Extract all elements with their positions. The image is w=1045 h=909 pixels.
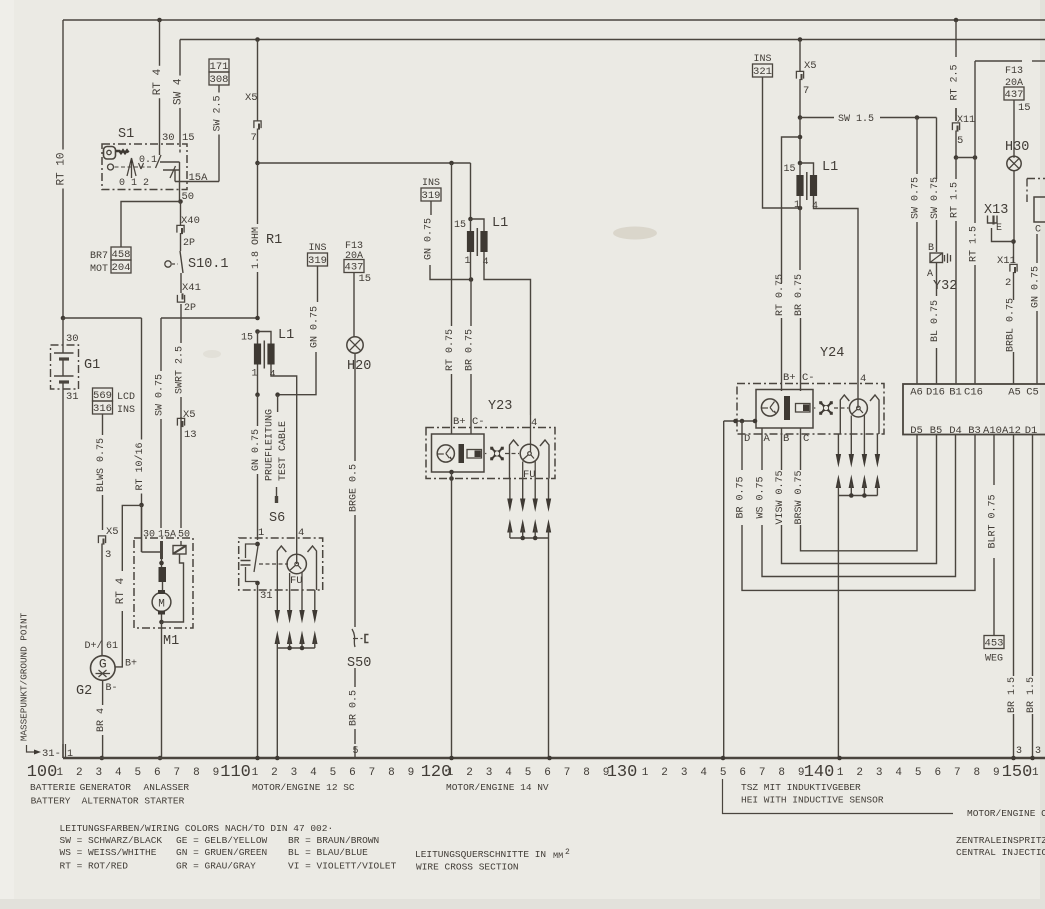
svg-text:X5: X5	[106, 526, 119, 538]
svg-text:2: 2	[76, 767, 83, 779]
svg-text:B5: B5	[930, 425, 943, 437]
svg-text:1: 1	[837, 767, 844, 779]
svg-text:C-: C-	[472, 416, 485, 428]
svg-text:D4: D4	[949, 425, 962, 437]
svg-text:1: 1	[67, 749, 73, 760]
legend wiring colors	[60, 823, 397, 872]
wire SWRT 2.5 from S10.1 to starter terminal 50	[180, 318, 182, 343]
svg-text:BATTERIE: BATTERIE	[30, 782, 76, 793]
svg-text:SW 4: SW 4	[173, 78, 185, 105]
svg-text:C-: C-	[802, 372, 815, 384]
svg-text:MOT: MOT	[90, 264, 108, 275]
svg-text:110: 110	[220, 763, 251, 782]
wire SW 0.75 to starter 15A	[160, 318, 162, 371]
svg-text:B3: B3	[968, 425, 981, 437]
svg-text:BR7: BR7	[90, 251, 108, 262]
svg-text:1: 1	[251, 369, 257, 380]
svg-text:FU: FU	[523, 469, 536, 481]
svg-text:2: 2	[661, 767, 668, 779]
switch S50	[347, 629, 371, 671]
svg-text:319: 319	[422, 190, 441, 202]
connector X5 pin 7 column	[245, 40, 261, 164]
wire distribution y163	[258, 162, 471, 164]
svg-text:WS 0.75: WS 0.75	[756, 476, 767, 518]
svg-text:1: 1	[1032, 767, 1039, 779]
svg-text:WIRE CROSS SECTION: WIRE CROSS SECTION	[416, 862, 519, 873]
wire SW 4 to ignition switch terminal 15	[179, 40, 181, 76]
svg-text:2: 2	[271, 767, 278, 779]
svg-text:15A: 15A	[189, 172, 209, 184]
svg-text:2P: 2P	[184, 303, 196, 314]
svg-text:B-: B-	[106, 683, 118, 694]
battery G1	[51, 318, 101, 758]
wire coil 4 to Y24 pin 4	[814, 196, 859, 408]
svg-text:BR 0.5: BR 0.5	[349, 690, 360, 726]
svg-text:C5: C5	[1026, 387, 1039, 399]
svg-text:GN 0.75: GN 0.75	[424, 218, 435, 260]
svg-text:B: B	[783, 433, 789, 445]
svg-text:ANLASSER: ANLASSER	[144, 782, 190, 793]
wire from H30 to ECU A5 with X13 stub and X11 pin 2	[984, 171, 1017, 384]
svg-text:15: 15	[241, 333, 253, 344]
svg-text:RT 10/16: RT 10/16	[134, 442, 146, 490]
test cable stub PRUEFLEITUNG	[265, 392, 290, 503]
svg-text:20A: 20A	[345, 251, 363, 262]
connector X5 pin 7 section 140	[796, 40, 816, 118]
svg-text:WS = WEISS/WHITHE: WS = WEISS/WHITHE	[60, 847, 157, 858]
svg-text:A5: A5	[1008, 387, 1021, 399]
svg-text:VI = VIOLETT/VIOLET: VI = VIOLETT/VIOLET	[288, 861, 397, 872]
fuse box labels 171 308	[209, 59, 229, 72]
svg-text:5: 5	[720, 767, 727, 779]
svg-text:4: 4	[895, 767, 902, 779]
svg-text:13: 13	[184, 429, 197, 441]
svg-text:D: D	[744, 433, 750, 445]
svg-text:SW 0.75: SW 0.75	[155, 374, 166, 416]
svg-text:SW 2.5: SW 2.5	[213, 95, 224, 131]
svg-text:ZENTRALEINSPRITZUN: ZENTRALEINSPRITZUN	[956, 835, 1045, 846]
svg-text:15: 15	[359, 273, 372, 285]
svg-text:FU: FU	[290, 575, 303, 587]
svg-text:308: 308	[210, 74, 229, 86]
wire RT 10 battery feed	[62, 20, 64, 150]
wire coil 4 to distributor S6 pin 4	[271, 365, 297, 565]
svg-text:3: 3	[876, 767, 883, 779]
svg-text:L1: L1	[278, 328, 294, 343]
svg-text:INS: INS	[753, 54, 771, 65]
ground bus 31	[63, 757, 1045, 759]
svg-text:319: 319	[308, 255, 327, 267]
svg-text:4: 4	[298, 527, 304, 539]
svg-text:C16: C16	[964, 387, 983, 399]
wire RT 0.75 to Y23 B+	[451, 163, 453, 326]
svg-text:S1: S1	[118, 127, 134, 142]
wire GN 0.75 INS to coil L1	[424, 201, 472, 280]
svg-text:30: 30	[143, 530, 155, 541]
svg-text:5: 5	[135, 767, 142, 779]
svg-text:HEI WITH INDUCTIVE SENSOR: HEI WITH INDUCTIVE SENSOR	[741, 795, 884, 806]
wire Y24 B VISW 0.75 to ECU B5	[775, 429, 937, 564]
svg-text:31-: 31-	[42, 748, 61, 760]
svg-text:R1: R1	[266, 233, 282, 248]
svg-text:Y23: Y23	[488, 399, 512, 414]
svg-text:RT 4: RT 4	[152, 68, 164, 95]
svg-text:453: 453	[985, 638, 1004, 650]
svg-text:100: 100	[27, 763, 58, 782]
svg-text:1: 1	[252, 767, 259, 779]
svg-text:Y24: Y24	[820, 346, 844, 361]
svg-text:3: 3	[1016, 746, 1022, 757]
wire Y24 D ground via y421	[724, 419, 758, 758]
wire ECU D1 BR 1.5 to ground	[1026, 435, 1041, 759]
svg-text:BR 0.75: BR 0.75	[465, 329, 476, 371]
svg-text:31: 31	[260, 590, 273, 602]
svg-text:MOTOR/ENGINE 14 NV: MOTOR/ENGINE 14 NV	[446, 782, 549, 793]
svg-text:X11: X11	[997, 255, 1016, 267]
svg-text:3: 3	[105, 549, 111, 561]
svg-text:BR = BRAUN/BROWN: BR = BRAUN/BROWN	[288, 835, 379, 846]
wire SW 0.75 to ECU A6	[916, 118, 918, 175]
node junction X5-7 / R1	[255, 161, 260, 166]
svg-text:GN = GRUEN/GREEN: GN = GRUEN/GREEN	[176, 847, 267, 858]
resistor R1 1.8 OHM ballast	[251, 163, 282, 318]
svg-text:SW 0.75: SW 0.75	[911, 177, 922, 219]
svg-text:7: 7	[251, 132, 257, 144]
svg-text:2: 2	[1005, 277, 1011, 289]
svg-text:M: M	[158, 599, 165, 611]
svg-text:BR 4: BR 4	[96, 708, 107, 732]
svg-text:9: 9	[993, 767, 1000, 779]
svg-text:50: 50	[178, 530, 190, 541]
svg-text:6: 6	[154, 767, 161, 779]
wire coil 4 to Y23 pin 4	[484, 252, 531, 415]
svg-text:140: 140	[804, 763, 835, 782]
svg-text:GN 0.75: GN 0.75	[310, 306, 321, 348]
wire top supply bus 30	[63, 19, 1045, 21]
section label battery generator starter	[30, 782, 189, 807]
svg-text:15: 15	[454, 220, 466, 231]
section label TSZ inductive sensor	[723, 779, 1045, 819]
ignition coil L1 section 140	[783, 160, 838, 212]
svg-text:RT = ROT/RED: RT = ROT/RED	[60, 861, 129, 872]
svg-text:437: 437	[345, 262, 364, 274]
wire SW 2.5 from fuse 171/308 to S1 terminal 15A	[218, 85, 220, 93]
svg-text:SWRT 2.5: SWRT 2.5	[175, 346, 186, 394]
svg-text:D+/: D+/	[85, 640, 103, 652]
svg-text:30: 30	[162, 132, 175, 144]
svg-text:LCD: LCD	[117, 392, 135, 403]
svg-text:3: 3	[96, 767, 103, 779]
svg-text:8: 8	[388, 767, 395, 779]
svg-text:3: 3	[291, 767, 298, 779]
svg-text:RT 1.5: RT 1.5	[969, 226, 980, 262]
svg-text:9: 9	[408, 767, 415, 779]
wire RT 1.5 to ECU C16	[956, 61, 1045, 384]
svg-text:D1: D1	[1025, 425, 1038, 437]
svg-text:BR 1.5: BR 1.5	[1026, 677, 1037, 713]
svg-text:0 1 2: 0 1 2	[119, 178, 149, 189]
svg-text:5: 5	[330, 767, 337, 779]
svg-text:VISW 0.75: VISW 0.75	[775, 470, 786, 524]
wire Y23 ground	[449, 470, 454, 758]
svg-text:L1: L1	[492, 216, 508, 231]
svg-text:S10.1: S10.1	[188, 257, 229, 272]
svg-text:15: 15	[182, 132, 195, 144]
svg-text:BL 0.75: BL 0.75	[930, 300, 941, 342]
wire BR 0.75 coil1/INS to Y24 C-	[794, 196, 805, 391]
svg-text:0.1: 0.1	[139, 155, 157, 166]
svg-text:RT 0.75: RT 0.75	[445, 329, 456, 371]
svg-text:7: 7	[174, 767, 181, 779]
svg-text:GR = GRAU/GRAY: GR = GRAU/GRAY	[176, 861, 256, 872]
svg-text:2: 2	[466, 767, 473, 779]
bus start marker 1	[65, 744, 67, 758]
wire BRGE 0.5 lamp to S50	[354, 353, 356, 461]
svg-text:2: 2	[856, 767, 863, 779]
lamp H30	[1005, 140, 1029, 171]
wire RT 4 to ignition switch terminal 30	[159, 20, 161, 66]
svg-text:B+: B+	[783, 372, 796, 384]
svg-text:4: 4	[700, 767, 707, 779]
svg-text:C: C	[803, 433, 809, 445]
svg-text:GN 0.75: GN 0.75	[251, 429, 262, 471]
svg-text:9: 9	[603, 767, 610, 779]
svg-text:15: 15	[1018, 102, 1031, 114]
spark plug arrows Y24	[836, 434, 880, 758]
svg-text:CENTRAL INJECTION: CENTRAL INJECTION	[956, 847, 1045, 858]
svg-text:1: 1	[258, 527, 264, 539]
breaker points S6	[239, 511, 323, 590]
svg-text:3: 3	[1035, 746, 1041, 757]
svg-text:1: 1	[447, 767, 454, 779]
svg-text:31: 31	[66, 391, 79, 403]
svg-text:5: 5	[915, 767, 922, 779]
component stub at right edge with pin C	[1027, 179, 1045, 236]
svg-text:2P: 2P	[183, 238, 195, 249]
svg-text:BR 0.75: BR 0.75	[794, 274, 805, 316]
svg-text:5: 5	[525, 767, 532, 779]
wire RT 4 to alternator B+	[122, 505, 141, 571]
svg-text:30: 30	[66, 333, 79, 345]
wire branch RT 0.75 to Y24 B+	[775, 118, 802, 392]
svg-text:50: 50	[182, 191, 195, 203]
svg-text:RT 0.75: RT 0.75	[775, 274, 786, 316]
svg-text:15A: 15A	[158, 530, 176, 541]
svg-text:MOTOR/ENGINE C14NZ: MOTOR/ENGINE C14NZ	[967, 808, 1045, 819]
svg-text:1: 1	[464, 256, 470, 267]
svg-text:BLRT 0.75: BLRT 0.75	[988, 494, 999, 548]
HEI distributor Y23	[426, 399, 555, 481]
svg-text:2: 2	[565, 848, 570, 857]
svg-text:130: 130	[607, 763, 638, 782]
wire ECU A10 BLRT 0.75 to code 453 WEG	[984, 435, 1004, 665]
svg-text:G: G	[99, 657, 107, 672]
svg-text:5: 5	[957, 135, 963, 147]
ground point arrow MASSEPUNKT	[19, 612, 61, 760]
svg-text:M1: M1	[163, 634, 179, 649]
svg-text:RT 10: RT 10	[56, 152, 68, 185]
svg-text:4: 4	[115, 767, 122, 779]
svg-text:B1: B1	[949, 387, 962, 399]
wire second supply bus 15	[180, 39, 1045, 41]
code boxes 569 316 LCD INS	[93, 388, 113, 401]
svg-text:7: 7	[759, 767, 766, 779]
paper smudge	[613, 227, 657, 240]
svg-text:7: 7	[954, 767, 961, 779]
svg-text:7: 7	[369, 767, 376, 779]
svg-text:MM: MM	[553, 851, 563, 861]
fuse F13 20A code 437 right	[1004, 66, 1031, 158]
svg-text:S50: S50	[347, 656, 371, 671]
spark plug arrows Y23	[507, 479, 551, 759]
svg-text:BRGE 0.5: BRGE 0.5	[349, 464, 360, 512]
svg-text:SW = SCHWARZ/BLACK: SW = SCHWARZ/BLACK	[60, 835, 163, 846]
wire supply to coil and Y23 B+	[470, 163, 472, 219]
svg-text:A6: A6	[910, 387, 923, 399]
svg-text:S6: S6	[269, 511, 285, 526]
svg-text:TEST CABLE: TEST CABLE	[278, 421, 289, 481]
ignition switch S1	[102, 127, 208, 202]
svg-text:LEITUNGSQUERSCHNITTE IN: LEITUNGSQUERSCHNITTE IN	[415, 849, 546, 860]
svg-text:C: C	[1035, 225, 1041, 236]
alternator G2	[76, 640, 137, 699]
ignition coil L1 engine 14NV	[454, 216, 508, 268]
svg-text:SW 0.75: SW 0.75	[930, 177, 941, 219]
svg-text:LEITUNGSFARBEN/WIRING COLORS N: LEITUNGSFARBEN/WIRING COLORS NACH/TO DIN…	[60, 823, 334, 834]
wire Y24 C BRSW 0.75 to ECU D5	[794, 429, 917, 551]
svg-text:8: 8	[193, 767, 200, 779]
wire coil 1 to breaker S6	[257, 365, 259, 395]
wire ECU A12 BR 1.5 to ground	[1007, 435, 1022, 759]
wire BR 4 alternator to ground	[102, 680, 104, 705]
warning lamp H20	[347, 337, 372, 374]
wire Y24 A WS 0.75 to ECU D4	[756, 429, 956, 577]
svg-text:321: 321	[753, 66, 772, 78]
svg-text:F13: F13	[1005, 66, 1023, 77]
svg-text:15: 15	[783, 164, 795, 175]
svg-text:7: 7	[564, 767, 571, 779]
svg-text:3: 3	[681, 767, 688, 779]
wire GN 0.75 to ECU C5	[1036, 234, 1038, 263]
svg-text:MASSEPUNKT/GROUND POINT: MASSEPUNKT/GROUND POINT	[19, 612, 30, 741]
svg-text:RT 4: RT 4	[115, 577, 127, 604]
wire BR 0.5 S50 to ground	[349, 668, 360, 758]
svg-text:204: 204	[112, 262, 131, 274]
svg-text:1: 1	[56, 767, 63, 779]
svg-text:7: 7	[803, 85, 809, 97]
svg-text:X5: X5	[804, 60, 817, 72]
svg-text:A12: A12	[1002, 425, 1021, 437]
svg-text:150: 150	[1002, 763, 1033, 782]
wire RT 2.5 with X11 pin 5	[950, 20, 976, 160]
svg-text:X41: X41	[182, 282, 201, 294]
svg-text:RT 2.5: RT 2.5	[950, 64, 961, 100]
svg-text:GN 0.75: GN 0.75	[1031, 266, 1042, 308]
svg-text:1.8 OHM: 1.8 OHM	[251, 227, 262, 269]
svg-text:BRBL 0.75: BRBL 0.75	[1006, 298, 1017, 352]
section label central injection	[956, 835, 1045, 858]
svg-text:8: 8	[778, 767, 785, 779]
node SW 1.5 junction	[798, 115, 803, 120]
svg-text:D5: D5	[910, 425, 923, 437]
svg-text:INS: INS	[117, 405, 135, 416]
svg-text:L1: L1	[822, 160, 838, 175]
svg-text:H30: H30	[1005, 140, 1029, 155]
svg-text:RT 1.5: RT 1.5	[950, 182, 961, 218]
svg-text:437: 437	[1005, 89, 1024, 101]
svg-text:WEG: WEG	[985, 654, 1003, 665]
wire INS 321 to coil terminal 1	[763, 77, 801, 208]
svg-text:SW 1.5: SW 1.5	[838, 114, 874, 125]
svg-text:GENERATOR: GENERATOR	[80, 782, 132, 793]
svg-text:A10: A10	[983, 425, 1002, 437]
svg-text:STARTER: STARTER	[144, 796, 184, 807]
wire RT 10/16 battery to starter 30	[63, 317, 142, 319]
fuse F13 20A code 437 section 120	[344, 241, 371, 337]
wire SW 1.5 distribution	[800, 114, 937, 125]
svg-text:BR 1.5: BR 1.5	[1007, 677, 1018, 713]
svg-text:BLWS 0.75: BLWS 0.75	[96, 438, 107, 492]
legend wire cross section	[415, 848, 570, 873]
svg-text:8: 8	[583, 767, 590, 779]
svg-text:ALTERNATOR: ALTERNATOR	[82, 796, 139, 807]
svg-text:G2: G2	[76, 684, 92, 699]
wire link y318 15A	[161, 317, 258, 319]
svg-text:6: 6	[349, 767, 356, 779]
svg-text:61: 61	[106, 641, 118, 652]
svg-text:A: A	[764, 433, 771, 445]
svg-text:B+: B+	[125, 659, 137, 670]
svg-text:PRUEFLEITUNG: PRUEFLEITUNG	[265, 409, 276, 481]
ignition coil L1 engine 12SC	[241, 328, 294, 381]
svg-text:9: 9	[213, 767, 220, 779]
wire Y24 D BR 0.75 to ECU B3	[736, 421, 976, 590]
svg-text:4: 4	[505, 767, 512, 779]
svg-text:X5: X5	[245, 92, 258, 104]
clutch switch S10.1 with connectors X40 X41	[165, 202, 229, 319]
node R1 bottom junction	[255, 316, 260, 321]
wire GN 0.75 from INS 319 to coil 1	[278, 266, 321, 395]
svg-text:6: 6	[544, 767, 551, 779]
svg-text:E: E	[996, 223, 1002, 234]
svg-text:H20: H20	[347, 359, 371, 374]
svg-text:8: 8	[973, 767, 980, 779]
ignition distributor Y24	[737, 346, 884, 434]
wire to BR7 MOT code boxes	[121, 202, 181, 248]
wire SW 0.75 / solenoid valve Y32 / BL 0.75 to ECU D16	[927, 118, 957, 385]
svg-text:GE = GELB/YELLOW: GE = GELB/YELLOW	[176, 835, 268, 846]
svg-text:6: 6	[934, 767, 941, 779]
svg-text:9: 9	[798, 767, 805, 779]
svg-text:6: 6	[739, 767, 746, 779]
wire BR 0.75 coil 1 to Y23 C-	[465, 252, 476, 415]
spark plug arrows S6	[275, 590, 318, 758]
svg-text:MOTOR/ENGINE 12 SC: MOTOR/ENGINE 12 SC	[252, 782, 355, 793]
svg-text:316: 316	[93, 403, 112, 415]
svg-text:G1: G1	[84, 358, 100, 373]
svg-text:TSZ MIT INDUKTIVGEBER: TSZ MIT INDUKTIVGEBER	[741, 782, 861, 793]
svg-text:B+: B+	[453, 416, 466, 428]
svg-text:4: 4	[310, 767, 317, 779]
wire RT 1.5 to ECU B1	[955, 158, 957, 180]
ECU control unit box	[903, 384, 1045, 437]
svg-text:1: 1	[642, 767, 649, 779]
coordinate scale numbers	[27, 763, 1039, 782]
starter motor M1	[134, 505, 193, 758]
svg-text:BATTERY: BATTERY	[31, 796, 71, 807]
svg-text:BR 0.75: BR 0.75	[736, 476, 747, 518]
wire BLWS 0.75 to alternator D+	[102, 414, 104, 435]
